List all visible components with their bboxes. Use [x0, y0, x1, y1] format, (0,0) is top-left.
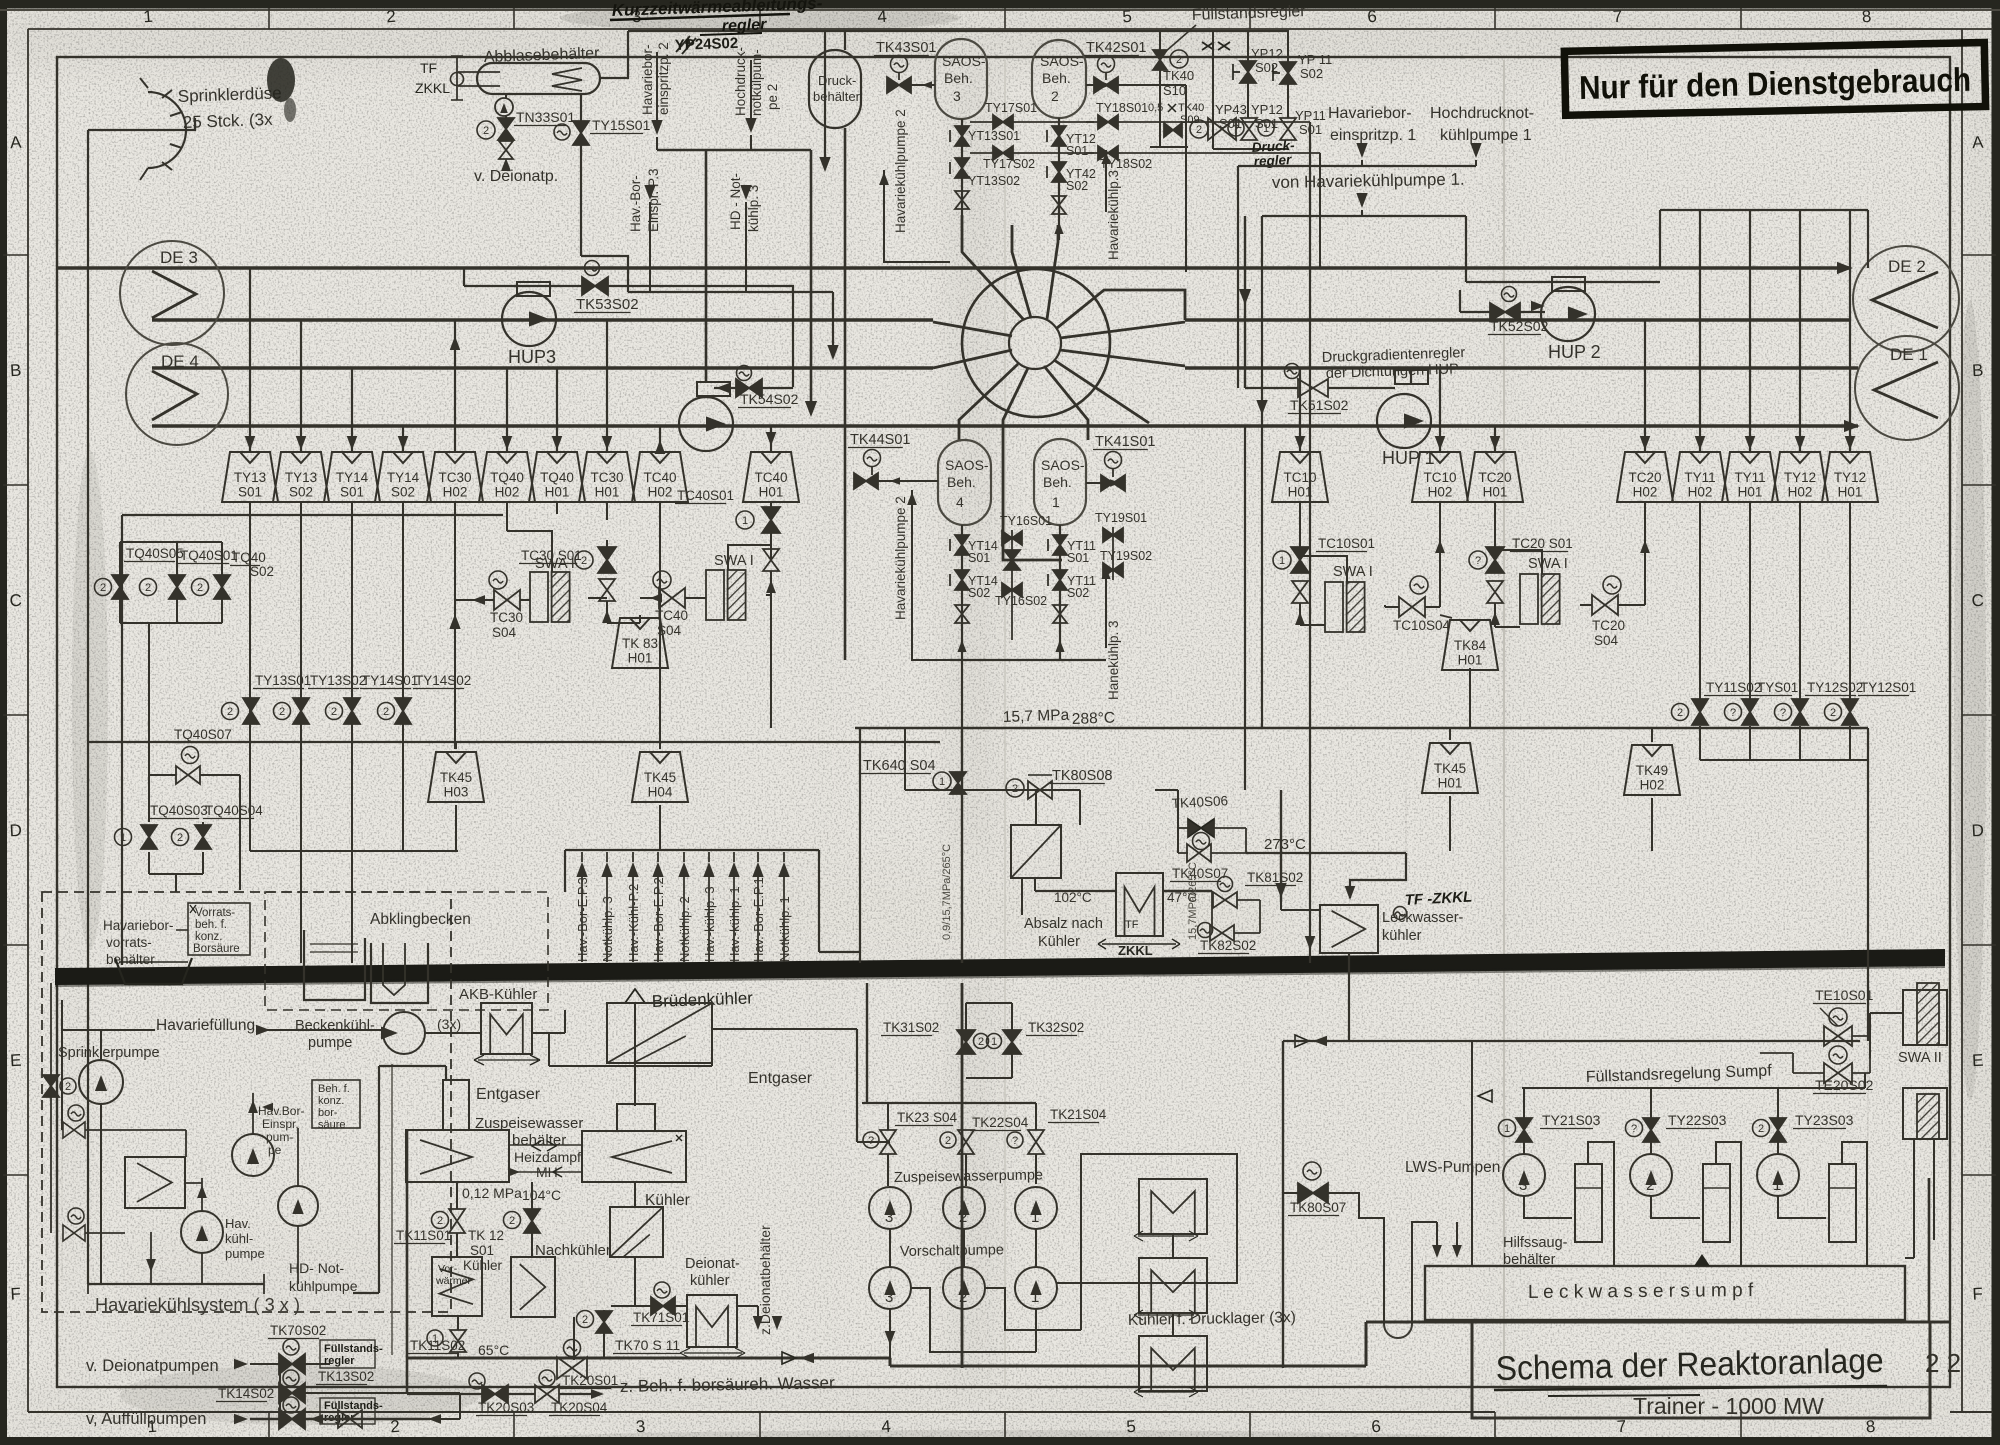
svg-text:Füllstands-: Füllstands-: [324, 1400, 383, 1412]
svg-text:102°C: 102°C: [1054, 890, 1092, 905]
bus y515: [122, 514, 503, 516]
vertical to HUP4: [705, 150, 708, 382]
wire nachkuehler down: [573, 1317, 575, 1360]
svg-text:TY19S02: TY19S02: [1100, 549, 1152, 563]
svg-text:Abklingbecken: Abklingbecken: [370, 911, 471, 928]
svg-text:2: 2: [145, 582, 151, 594]
svg-text:Absalz nach: Absalz nach: [1024, 916, 1103, 932]
svg-text:2: 2: [945, 1135, 951, 1147]
svg-text:TY17S01: TY17S01: [985, 101, 1037, 115]
svg-text:DE 1: DE 1: [1890, 345, 1928, 364]
svg-text:TK23 S04: TK23 S04: [897, 1110, 958, 1125]
valve YT13S01: [955, 126, 969, 146]
instrument TC10 H01: [1272, 452, 1328, 502]
instrument TK49 H02 right: [1651, 728, 1653, 742]
bottom margin line: [28, 1411, 1495, 1413]
wires into reactor top: [1011, 225, 1013, 252]
svg-text:2: 2: [1646, 1177, 1654, 1194]
svg-text:TK40S06: TK40S06: [1171, 793, 1228, 811]
wire bold drop leckwasser: [1280, 790, 1282, 902]
wire AKB to entgaser: [548, 1033, 550, 1066]
instrument TK83 H01: [639, 615, 641, 623]
wire bottom main right: [1282, 1041, 1284, 1368]
svg-text:YT13S02: YT13S02: [968, 174, 1020, 188]
svg-text:Beh.: Beh.: [944, 70, 973, 86]
svg-text:Hilfssaug-: Hilfssaug-: [1503, 1235, 1568, 1251]
svg-text:SWA II: SWA II: [1898, 1050, 1942, 1066]
coolers f Drucklager: [1139, 1179, 1207, 1234]
svg-text:5: 5: [1126, 1417, 1137, 1437]
basin abklingbecken: [304, 930, 365, 1000]
pump HD-Not-kuehlpumpe: [278, 1186, 318, 1226]
svg-text:pumpe: pumpe: [308, 1035, 352, 1051]
ink blot: [267, 58, 295, 102]
svg-text:YP24S02: YP24S02: [675, 35, 739, 54]
branch TY17S02: [970, 152, 1094, 154]
valve YT12S02: [1052, 162, 1066, 182]
svg-text:YP 11: YP 11: [1298, 52, 1332, 67]
valve TC40S04: [653, 571, 671, 589]
instrument TC10 H02: [1412, 452, 1468, 502]
svg-text:TY22S03: TY22S03: [1668, 1112, 1727, 1128]
valve YT13S02: [955, 158, 969, 178]
svg-text:z.Deionatbehälter: z.Deionatbehälter: [757, 1225, 773, 1335]
arrow von hav: [1356, 193, 1367, 208]
line 15MPa: [855, 727, 1868, 729]
svg-text:TK43S01: TK43S01: [876, 40, 936, 56]
pump HUP2: [1552, 277, 1585, 291]
wire swa loop left: [507, 531, 552, 572]
bus einspr wire: [628, 291, 833, 293]
wire havariefuellung: [62, 1029, 155, 1031]
svg-text:Havariebor-: Havariebor-: [103, 918, 174, 933]
wire swa2 down to sumpf: [1913, 1139, 1915, 1258]
svg-text:TK84: TK84: [1454, 638, 1487, 653]
svg-text:2: 2: [177, 832, 183, 844]
arrow into DE1: [1844, 420, 1860, 432]
heater Vorwaermer: [432, 1257, 482, 1316]
svg-text:TK22S04: TK22S04: [972, 1115, 1029, 1130]
svg-text:C: C: [9, 591, 22, 611]
valve chain SAOS4 down: [961, 525, 963, 660]
vessel SAOS-Beh 2: [1032, 40, 1086, 118]
svg-text:von Havariekühlpumpe 1.: von Havariekühlpumpe 1.: [1272, 170, 1465, 192]
thick black separation band: [55, 949, 1945, 985]
svg-text:SAOS-: SAOS-: [945, 457, 989, 473]
pump Zuspeisewasserpumpe 2: [943, 1187, 985, 1229]
svg-text:TC10S01: TC10S01: [1318, 536, 1375, 551]
svg-text:Füllstands-: Füllstands-: [324, 1343, 383, 1355]
svg-text:SWA I: SWA I: [1333, 564, 1373, 580]
svg-text:S01: S01: [1067, 551, 1089, 565]
svg-text:?: ?: [1233, 123, 1239, 135]
vertical drop 811: [810, 150, 813, 405]
valve TC30S04: [489, 571, 507, 589]
second bottom pipe: [407, 1393, 482, 1395]
svg-text:DE 3: DE 3: [160, 248, 198, 267]
svg-text:S02: S02: [1300, 66, 1323, 81]
svg-text:TQ40S04: TQ40S04: [205, 803, 263, 818]
pump HUP1: [1395, 370, 1428, 384]
cooler Leckwasserkuehler: [1320, 905, 1378, 953]
arrow down havariebor2: [656, 52, 658, 120]
svg-text:TK 83: TK 83: [622, 636, 658, 651]
svg-text:0,12 MPa: 0,12 MPa: [462, 1185, 522, 1201]
svg-text:TK51S02: TK51S02: [1290, 397, 1349, 413]
valve TK80S07: [1303, 1162, 1321, 1180]
arrow into HUP4: [716, 383, 729, 393]
wires auffuell: [250, 1418, 430, 1420]
svg-text:DE 4: DE 4: [161, 352, 199, 371]
wire TK80S07 route: [1283, 1192, 1298, 1194]
svg-text:2: 2: [959, 1209, 967, 1226]
reactor spoke to SAOS2 chain: [1047, 225, 1058, 319]
svg-text:?: ?: [1631, 1123, 1637, 1135]
valve chain SAOS1 down: [1059, 525, 1061, 660]
svg-text:TF: TF: [1125, 919, 1139, 931]
instrument TK45 H01 right: [1449, 728, 1451, 740]
valve TK20S04: [539, 1370, 555, 1386]
svg-text:65°C: 65°C: [478, 1342, 509, 1358]
svg-text:TK80S08: TK80S08: [1052, 768, 1112, 784]
svg-text:H01: H01: [1438, 776, 1463, 791]
svg-text:H02: H02: [648, 485, 673, 500]
main center rail x962: [961, 983, 964, 1368]
svg-text:TK81S02: TK81S02: [1247, 870, 1303, 885]
top bus wire: [628, 30, 1289, 32]
pump Zuspeisewasserpumpe 1: [1015, 1187, 1057, 1229]
pump Vorschaltpumpe 3: [869, 1267, 911, 1309]
svg-text:TC30: TC30: [490, 610, 523, 625]
svg-text:2: 2: [959, 1289, 967, 1306]
svg-text:Druck-: Druck-: [818, 73, 856, 88]
svg-text:YP43: YP43: [1215, 102, 1247, 117]
reactor spoke to SAOS4: [959, 364, 1018, 440]
branch TY17S01: [970, 121, 1094, 123]
check valves SAOS4: [955, 605, 969, 623]
svg-text:TY13: TY13: [234, 470, 266, 485]
svg-text:1: 1: [991, 1036, 997, 1048]
verticals below traps left: [249, 502, 251, 515]
svg-text:Beh.: Beh.: [1042, 70, 1071, 86]
wire trap bottoms: [455, 805, 457, 851]
svg-text:S04: S04: [1594, 633, 1619, 648]
svg-text:konz.: konz.: [318, 1095, 344, 1107]
svg-text:Vor-: Vor-: [438, 1263, 458, 1275]
svg-text:TQ40: TQ40: [490, 470, 524, 485]
svg-text:kühler: kühler: [1382, 928, 1422, 944]
svg-text:S02: S02: [1066, 179, 1088, 193]
steam generator DE3: [120, 241, 224, 345]
svg-text:H01: H01: [1838, 485, 1863, 500]
svg-text:DE 2: DE 2: [1888, 257, 1926, 276]
svg-text:TY21S03: TY21S03: [1542, 1112, 1601, 1128]
valve YT11S01: [1053, 535, 1067, 555]
svg-text:TK 12: TK 12: [468, 1228, 504, 1243]
svg-text:6: 6: [1371, 1417, 1382, 1437]
svg-text:SWA I: SWA I: [1528, 556, 1568, 572]
instrument TQ40 H02: [479, 452, 535, 502]
svg-text:Hochdrucknot-: Hochdrucknot-: [1430, 105, 1534, 122]
svg-text:7: 7: [1616, 1417, 1627, 1437]
svg-text:TQ40: TQ40: [540, 470, 574, 485]
instrument TY11 H01: [1722, 452, 1778, 502]
svg-text:TY11S02: TY11S02: [1706, 680, 1761, 695]
svg-text:1: 1: [742, 515, 748, 527]
svg-text:1: 1: [1031, 1209, 1039, 1226]
svg-text:Havariebor-: Havariebor-: [640, 44, 655, 115]
svg-text:YT13S01: YT13S01: [968, 129, 1020, 143]
pump Vorschaltpumpe 1: [1015, 1267, 1057, 1309]
svg-text:TY12: TY12: [1784, 470, 1816, 485]
svg-text:TC20: TC20: [1628, 470, 1661, 485]
svg-text:TC40: TC40: [754, 470, 787, 485]
valve chain SAOS2 down: [1058, 118, 1060, 240]
svg-text:2: 2: [437, 1215, 443, 1227]
stair wires pumps: [911, 1288, 1036, 1352]
wires TK40 bypass: [1177, 790, 1179, 853]
svg-text:?: ?: [1730, 707, 1736, 719]
pump LWS 1: [1757, 1154, 1799, 1196]
svg-text:TY17S02: TY17S02: [983, 157, 1035, 171]
valve TK20S01: [564, 1340, 581, 1357]
svg-text:2: 2: [1196, 124, 1202, 136]
pump Beckenkuehlpumpe: [383, 1012, 425, 1054]
steam generator DE4: [126, 343, 228, 445]
pump Hav kuehlpumpe: [181, 1211, 223, 1253]
instrument TQ40 H01: [529, 452, 585, 502]
svg-text:konz.: konz.: [195, 931, 223, 943]
svg-text:pe 2: pe 2: [765, 84, 780, 110]
valve YT14S02: [955, 570, 969, 590]
svg-text:2: 2: [483, 125, 489, 137]
line D-left bus: [88, 741, 940, 743]
left rail: [87, 130, 89, 1284]
reactor core: [1009, 317, 1061, 369]
svg-text:TC30: TC30: [438, 470, 471, 485]
reactor spoke right to hot leg: [1060, 322, 1185, 338]
svg-text:1: 1: [1504, 1123, 1510, 1135]
reactor vessel: [962, 269, 1110, 417]
svg-text:2: 2: [582, 1314, 588, 1326]
wires below vorschalt: [889, 1309, 891, 1366]
svg-text:TK31S02: TK31S02: [883, 1020, 939, 1035]
svg-text:Vorschaltpumpe: Vorschaltpumpe: [900, 1242, 1004, 1260]
svg-text:B: B: [1972, 361, 1984, 381]
svg-text:H03: H03: [444, 785, 469, 800]
svg-text:einspritzp. 2: einspritzp. 2: [656, 42, 671, 115]
svg-text:4: 4: [881, 1417, 892, 1437]
svg-text:einspritzp. 1: einspritzp. 1: [1330, 127, 1416, 144]
instrument TC40 H02: [632, 452, 688, 502]
column entgaser left: [443, 1080, 469, 1130]
valve TK82S02: [1210, 925, 1234, 941]
wire swa right2 loop: [1495, 550, 1542, 574]
svg-text:Havariebor-: Havariebor-: [1328, 105, 1412, 122]
svg-text:S02: S02: [1067, 586, 1089, 600]
svg-text:TK71S01: TK71S01: [633, 1310, 689, 1325]
right margin line: [1961, 29, 1963, 1412]
svg-text:H01: H01: [1458, 653, 1483, 668]
svg-text:SAOS-: SAOS-: [1040, 53, 1084, 69]
reactor spoke upper mid: [1012, 225, 1031, 318]
bus hav-bor wire: [657, 149, 811, 151]
svg-text:TK42S01: TK42S01: [1086, 40, 1146, 56]
svg-text:regler: regler: [324, 1355, 355, 1367]
pump Vorschaltpumpe 2: [943, 1267, 985, 1309]
svg-text:AKB-Kühler: AKB-Kühler: [459, 986, 537, 1003]
svg-text:Havariekühlp.3: Havariekühlp.3: [1106, 170, 1121, 260]
svg-text:TC20: TC20: [1592, 618, 1625, 633]
svg-text:H02: H02: [1633, 485, 1658, 500]
sprinkler nozzle symbol: [148, 92, 186, 168]
steam generator DE2: [1853, 246, 1959, 352]
svg-text:Schema der Reaktoranlage: Schema der Reaktoranlage: [1495, 1342, 1884, 1388]
title block box: [1472, 1321, 1950, 1324]
svg-text:kühlpumpe: kühlpumpe: [289, 1278, 358, 1294]
svg-text:S01: S01: [968, 551, 990, 565]
svg-text:TK49: TK49: [1636, 763, 1668, 778]
reactor spoke left hot leg: [933, 350, 1012, 368]
svg-text:v. Deionatp.: v. Deionatp.: [474, 168, 558, 185]
wire druckbehaelter top: [844, 31, 846, 50]
svg-text:vorrats-: vorrats-: [106, 935, 152, 950]
valve pair on y1041: [1295, 1035, 1309, 1047]
svg-text:25 Stck. (3x: 25 Stck. (3x: [182, 110, 273, 132]
tank Leckwassersumpf: [1425, 1266, 1905, 1320]
wire abblase to top bus: [600, 31, 628, 78]
svg-text:TY19S01: TY19S01: [1095, 511, 1147, 525]
svg-text:2: 2: [1758, 1123, 1764, 1135]
svg-text:2: 2: [383, 706, 389, 718]
svg-text:8: 8: [1861, 7, 1872, 27]
svg-text:säure: säure: [318, 1119, 346, 1131]
stamp Nur fuer den Dienstgebrauch: [1564, 43, 1985, 116]
left margin line: [27, 29, 29, 1412]
wire rail 962 above band: [961, 728, 963, 963]
svg-text:1: 1: [1263, 123, 1269, 135]
svg-text:LWS-Pumpen: LWS-Pumpen: [1405, 1159, 1500, 1176]
svg-text:TF: TF: [420, 60, 437, 76]
svg-text:TY18S01: TY18S01: [1096, 101, 1148, 115]
svg-text:3: 3: [1519, 1177, 1527, 1194]
svg-text:1: 1: [939, 776, 945, 788]
svg-text:Beckenkühl-: Beckenkühl-: [295, 1018, 375, 1034]
svg-text:H04: H04: [648, 785, 673, 800]
svg-text:behälter: behälter: [106, 952, 155, 967]
svg-text:TC40: TC40: [643, 470, 676, 485]
wires TQ40 cluster: [119, 542, 121, 575]
svg-text:F: F: [10, 1284, 21, 1304]
svg-text:Deionat-: Deionat-: [685, 1256, 740, 1272]
svg-text:2: 2: [1051, 88, 1059, 104]
svg-text:TK70 S 11: TK70 S 11: [615, 1337, 680, 1353]
svg-text:1: 1: [143, 7, 154, 27]
svg-text:TY14S02: TY14S02: [415, 673, 471, 688]
valve YT11S02: [1053, 570, 1067, 590]
svg-text:TK40: TK40: [1178, 102, 1204, 114]
reactor spoke lower right: [1054, 360, 1149, 423]
svg-text:A: A: [10, 133, 23, 153]
pump LWS 2: [1630, 1154, 1672, 1196]
wire TK40 rail: [1159, 31, 1161, 50]
fold crease line: [1503, 60, 1505, 1385]
right rail lower: [1867, 983, 1869, 1266]
svg-text:4: 4: [877, 7, 888, 27]
vessel Druckbehaelter: [809, 50, 861, 128]
instrument TY13 S02: [273, 452, 329, 502]
valve TK71S01: [654, 1282, 670, 1298]
svg-text:?: ?: [1012, 1135, 1018, 1147]
svg-text:288°C: 288°C: [1072, 709, 1116, 727]
svg-text:kühl-: kühl-: [225, 1231, 253, 1246]
svg-text:TQ40S01: TQ40S01: [180, 548, 238, 563]
svg-text:TE10S01: TE10S01: [1815, 987, 1874, 1003]
svg-text:15,7 MPa: 15,7 MPa: [1003, 707, 1070, 726]
svg-text:D: D: [9, 821, 22, 841]
svg-text:TY18S02: TY18S02: [1100, 157, 1152, 171]
valve TK12S01 filled: [504, 1212, 521, 1229]
pump Zuspeisewasserpumpe 3: [869, 1187, 911, 1229]
reactor spoke right to cold leg: [1060, 350, 1185, 366]
svg-text:2: 2: [1176, 54, 1182, 66]
svg-text:H01: H01: [1483, 485, 1508, 500]
wire swa right1 loop: [1300, 556, 1347, 582]
svg-text:2: 2: [279, 706, 285, 718]
svg-text:TY16S01: TY16S01: [1000, 514, 1052, 528]
sheet outer border frame: [0, 0, 2000, 9]
instrument TK45 H04: [659, 742, 661, 749]
svg-text:2: 2: [65, 1081, 71, 1093]
svg-text:H01: H01: [1288, 485, 1313, 500]
bus right below valves: [1699, 726, 1701, 760]
svg-text:1: 1: [1031, 1289, 1039, 1306]
vertical rails through D: [1244, 426, 1246, 790]
trough havariebor: [115, 958, 192, 984]
svg-text:3: 3: [635, 1417, 646, 1437]
svg-text:4: 4: [956, 494, 964, 510]
svg-text:TC10: TC10: [1283, 470, 1316, 485]
valve rail left lower: [43, 1075, 59, 1097]
svg-text:Hav.: Hav.: [225, 1216, 251, 1231]
svg-text:2: 2: [331, 706, 337, 718]
svg-text:Kühler: Kühler: [1038, 934, 1080, 950]
arrow hd-not-kuehlp 3: [740, 185, 751, 200]
line leck y1041: [1283, 1040, 1860, 1042]
wire TE line down to sumpf: [1471, 1041, 1473, 1266]
svg-text:Hanekühlp. 3: Hanekühlp. 3: [1106, 620, 1121, 700]
svg-text:104°C: 104°C: [522, 1187, 561, 1203]
svg-text:S02: S02: [250, 564, 274, 579]
svg-text:behälter: behälter: [813, 89, 861, 104]
svg-text:E: E: [10, 1051, 22, 1071]
svg-text:1: 1: [432, 1333, 438, 1345]
vessel SAOS-Beh 4: [938, 440, 991, 525]
tank zuspeisewasserbehaelter right: [582, 1131, 686, 1182]
svg-text:Kühler f. Drucklager (3x): Kühler f. Drucklager (3x): [1128, 1309, 1296, 1329]
svg-text:2: 2: [1830, 707, 1836, 719]
wire TK53 loop: [608, 286, 793, 387]
svg-text:1: 1: [120, 832, 126, 844]
svg-text:TN33S01: TN33S01: [516, 109, 575, 125]
svg-text:TYS01: TYS01: [1757, 680, 1798, 695]
svg-text:Havariekühlpumpe 2: Havariekühlpumpe 2: [893, 496, 908, 620]
bus below saos cluster: [950, 659, 1106, 661]
left bold rail lower: [406, 1130, 409, 1394]
svg-text:S10: S10: [1163, 83, 1186, 98]
svg-text:1: 1: [1773, 1177, 1781, 1194]
valve TC20S04: [1603, 576, 1621, 594]
